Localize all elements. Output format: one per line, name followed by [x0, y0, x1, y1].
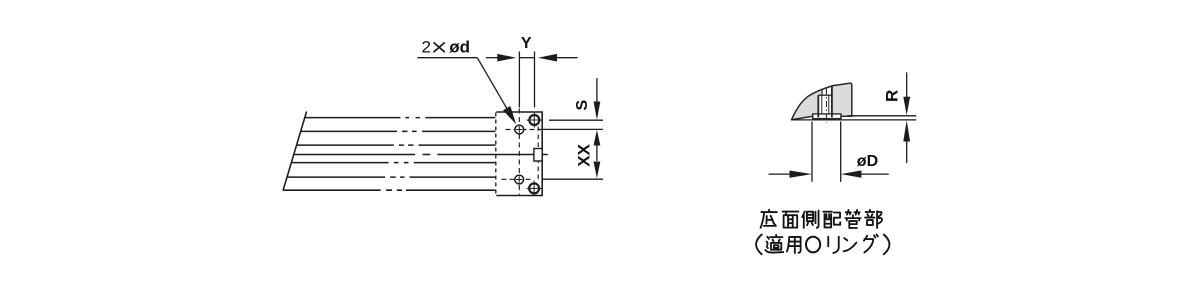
svg-text:S: S	[574, 100, 591, 111]
svg-text:Y: Y	[521, 35, 532, 52]
svg-text:ød: ød	[449, 38, 470, 57]
svg-text:øD: øD	[857, 153, 878, 170]
svg-text:R: R	[883, 90, 902, 102]
svg-text:XX: XX	[574, 143, 593, 166]
svg-text:2: 2	[422, 38, 431, 57]
